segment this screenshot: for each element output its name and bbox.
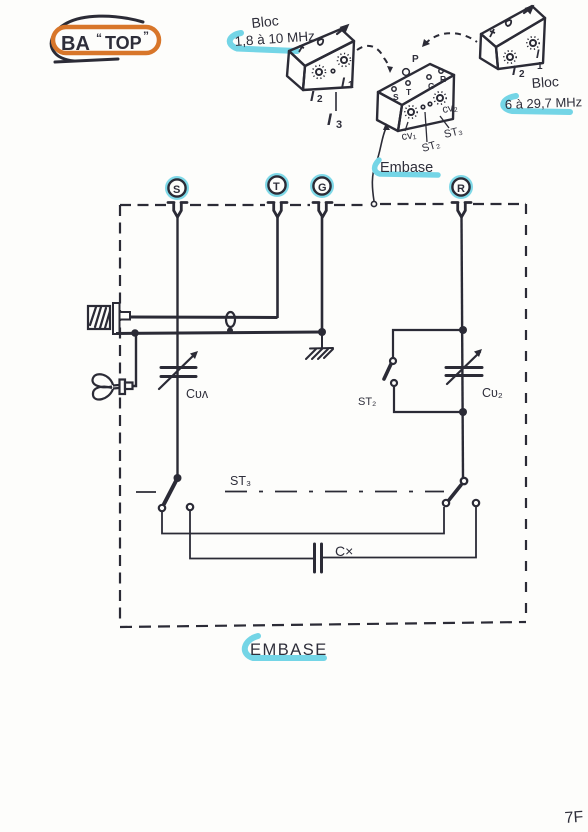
svg-text:Cυ₂: Cυ₂ (482, 386, 503, 400)
wire down to trimmer (130, 333, 136, 386)
svg-text:Bloc: Bloc (531, 73, 559, 91)
svg-text:Cυʌ: Cυʌ (186, 387, 209, 401)
cyan swoosh bloc1 (230, 33, 297, 51)
svg-text:EMBASE: EMBASE (250, 641, 328, 659)
terminal T (267, 175, 287, 217)
dashed border embase box: top (120, 204, 526, 627)
capacitor Cx (315, 544, 322, 572)
switch ST2 (390, 358, 396, 364)
leader lines labels middle block (405, 112, 449, 142)
terminal G (312, 176, 332, 217)
wire from left switch left contact (162, 507, 444, 534)
dashed border: right (525, 204, 527, 621)
logo BA TOP black pen arc (51, 16, 143, 62)
svg-text:”: ” (143, 29, 149, 43)
nub of feedthrough (120, 312, 131, 320)
dashed border: left (119, 205, 121, 625)
svg-text:3: 3 (336, 119, 342, 131)
svg-text:7F: 7F (564, 809, 584, 827)
svg-text:R: R (440, 74, 446, 84)
svg-text:P: P (412, 54, 419, 65)
wire to ST2 branch (393, 330, 463, 358)
wire from Cx to right switch right contact (323, 507, 476, 558)
svg-text:1: 1 (348, 80, 354, 91)
svg-text:1: 1 (537, 61, 543, 72)
svg-text:T: T (406, 87, 412, 97)
wire ST2 bottom (394, 386, 463, 412)
bloc3 top pins (490, 20, 511, 37)
svg-text:2: 2 (519, 69, 525, 80)
bloc1 top arrow (337, 26, 348, 35)
bloc1 top pins (299, 39, 323, 52)
svg-text:Embase: Embase (380, 160, 433, 176)
svg-text:cv₁: cv₁ (401, 129, 418, 143)
switch ST3 right section (461, 478, 467, 484)
dashed arrow bloc1 to embase bloc (357, 46, 390, 69)
dashed border: bottom (120, 622, 526, 627)
junction dot loop to bottom wire (227, 328, 233, 334)
junction dot left (131, 329, 139, 337)
svg-text:G: G (428, 81, 435, 91)
svg-text:Bloc: Bloc (251, 12, 280, 31)
plate of feedthrough (113, 303, 120, 334)
svg-text:S: S (393, 92, 399, 102)
bloc3 top arrow (524, 7, 533, 14)
axis dash-dot ST3 (136, 491, 444, 494)
svg-text:G: G (318, 182, 327, 194)
wire T vertical (276, 217, 279, 318)
wire from left switch right contact to Cx (190, 510, 313, 559)
cyan swoosh Embase top (375, 160, 438, 175)
variable capacitor CV1 (159, 354, 196, 389)
wing nut trimmer (92, 374, 132, 399)
cyan swoosh bloc3 (503, 96, 570, 112)
svg-text:BA: BA (61, 33, 90, 55)
variable capacitor CV2 (446, 352, 482, 384)
svg-text:2: 2 (317, 94, 323, 105)
bloc2 front: CV1 CV2 sockets (405, 92, 446, 118)
bloc 1 (left block) (287, 29, 354, 90)
wire R vertical (462, 217, 464, 478)
wire bottom horizontal to ground (116, 332, 322, 334)
svg-text:S: S (173, 184, 180, 196)
svg-text:6 à 29,7 MHz: 6 à 29,7 MHz (505, 94, 583, 112)
wire S vertical (176, 217, 178, 476)
bloc 2 (right block) (480, 6, 545, 69)
svg-text:TOP: TOP (105, 33, 142, 53)
ground junction dot (318, 328, 326, 336)
ground (306, 332, 333, 359)
wire to I3 (335, 92, 337, 111)
bloc1 front sockets (313, 54, 351, 79)
coil L1 hatched box (88, 306, 110, 329)
svg-text:T: T (273, 181, 280, 193)
svg-text:ST₃: ST₃ (230, 474, 251, 488)
bloc2 top pins S T G R (392, 69, 443, 92)
dashed arrow bloc2 to embase bloc (425, 33, 477, 44)
Embase arrow curve to block (372, 128, 386, 201)
svg-text:R: R (457, 183, 465, 195)
coupling loop on top wire (226, 312, 235, 327)
svg-text:ST₂: ST₂ (358, 396, 376, 408)
Embase pointer circle on border (371, 201, 376, 206)
terminal S (167, 178, 187, 217)
wire G vertical (321, 217, 324, 332)
svg-text:“: “ (96, 31, 102, 45)
junction dot R bottom (459, 408, 467, 416)
switch ST3 left section (174, 474, 182, 482)
wire top horizontal to T (130, 316, 278, 320)
bloc3 front sockets (504, 37, 539, 63)
terminal R (451, 177, 471, 217)
logo BA TOP orange stadium (53, 27, 159, 53)
bloc embase (middle block) (377, 64, 454, 131)
junction dot R top (459, 326, 467, 334)
logo BA TOP text (61, 29, 149, 55)
cyan swoosh EMBASE bottom (245, 636, 324, 658)
